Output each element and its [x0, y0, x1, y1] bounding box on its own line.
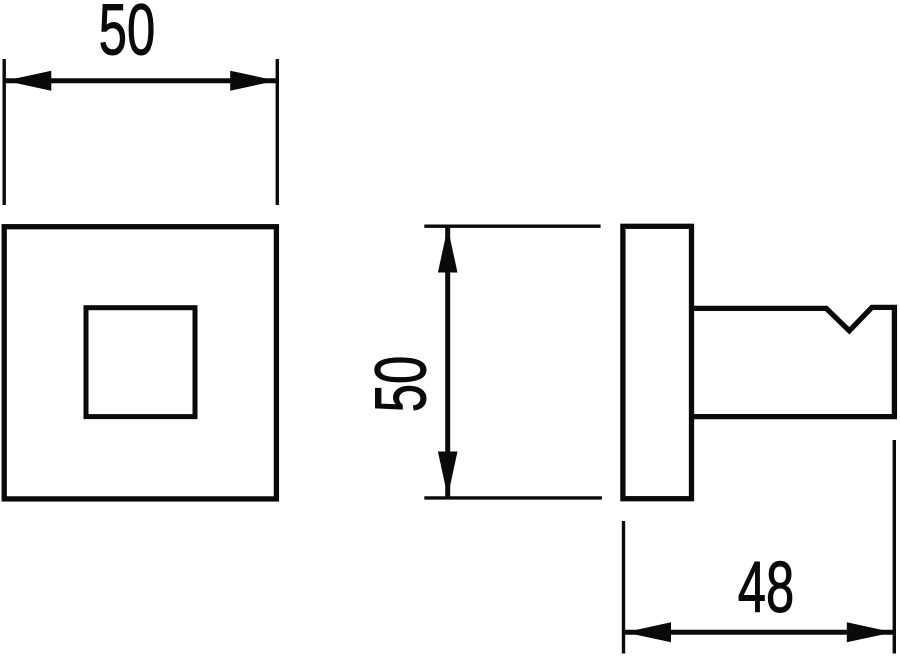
dimension 50 width: left arrowhead [5, 71, 51, 91]
side view: wall plate [623, 226, 692, 498]
dimension 50 width: right extension line [276, 59, 279, 205]
svg-text:48: 48 [738, 547, 794, 628]
front view: central square boss [86, 308, 195, 417]
dimension 50 width: dimension line [4, 78, 277, 83]
dimension 48 depth: left arrowhead [625, 622, 671, 642]
dimension 50 height: top extension line [424, 224, 600, 227]
svg-text:50: 50 [99, 0, 155, 71]
dimension 50 height: dimension line [445, 226, 450, 498]
dimension 50 height: bottom arrowhead [438, 452, 458, 497]
dimension 50 width: right arrowhead [230, 71, 276, 91]
dimension 50 height: bottom extension line [424, 496, 602, 499]
svg-text:50: 50 [361, 356, 442, 412]
dimension 48 depth: right arrowhead [847, 622, 893, 642]
dimension 48 depth: dimension line [624, 630, 895, 635]
dimension 50 height: top arrowhead [438, 227, 458, 272]
dimension 50 width: left extension line [2, 59, 5, 205]
dimension 48 depth: right extension line [893, 440, 896, 654]
dimension 48 depth: left extension line [622, 521, 625, 654]
front view: square wall plate [4, 227, 276, 499]
side view: hook arm with V-notch [694, 307, 894, 416]
